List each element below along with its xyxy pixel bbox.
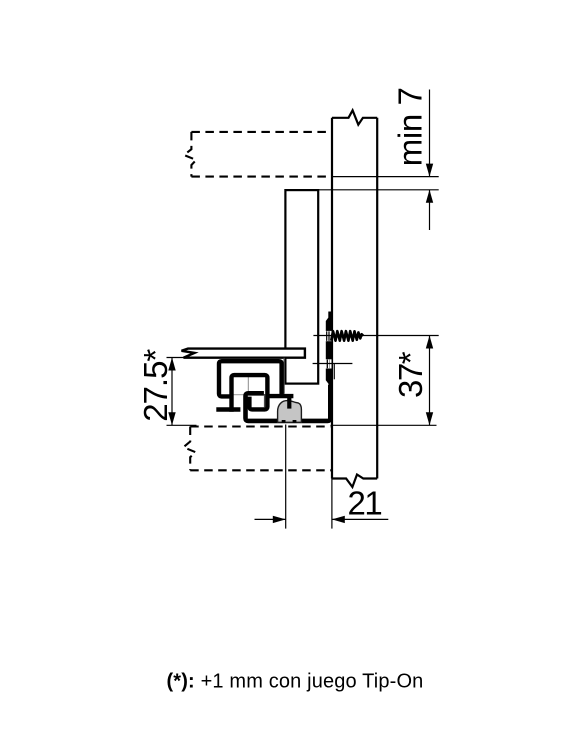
27.5 top extension line (167, 357, 187, 359)
min 7 extension line (bottom, at drawer back top) (318, 189, 439, 191)
svg-text:min 7: min 7 (391, 87, 428, 166)
dimension min 7 (429, 90, 431, 177)
mounting flange (black) (326, 312, 332, 388)
dimension 21 (255, 518, 286, 520)
37 bottom extension line (331, 424, 437, 426)
21 extension line (left) (285, 425, 287, 529)
min 7 extension line (top, at hidden panel bottom) (332, 176, 439, 178)
drawer bottom panel (with break at left end) (182, 349, 305, 358)
hidden top panel (dashed outline with break) (184, 132, 331, 177)
construction line (gray, inner) (247, 377, 249, 392)
construction line (gray, horizontal) (233, 394, 245, 396)
Tip-On stem (287, 396, 291, 408)
screw head lines (326, 331, 328, 341)
cabinet side panel (332, 110, 377, 487)
hidden hole line in panel (333, 364, 335, 380)
drawer rail profile (piece A) (216, 361, 330, 421)
construction line (gray, inner 2) (266, 394, 268, 407)
rail hook bar (216, 407, 240, 411)
catch feet (282, 420, 286, 423)
svg-text:21: 21 (348, 485, 382, 522)
hidden edge line (right of drawer rail) (283, 358, 285, 394)
27.5 bottom extension line (167, 424, 197, 426)
21 extension line (right, panel edge continuation) (331, 479, 333, 529)
inner rail profile (piece B) (232, 375, 268, 412)
svg-text:37*: 37* (392, 351, 429, 398)
screw (thread zigzag) (331, 331, 363, 341)
slot lines (326, 360, 328, 369)
drawer back panel (285, 190, 318, 384)
screw axis / 37 top extension line (313, 335, 438, 337)
cabinet rail profile (piece C) (246, 385, 331, 421)
hidden edge line (inner square right) (264, 394, 266, 407)
hidden lower drawer panel (dashed with break) (184, 427, 332, 471)
svg-text:27.5*: 27.5* (137, 349, 174, 422)
svg-text:(*): +1 mm con juego Tip-On: (*): +1 mm con juego Tip-On (167, 670, 424, 692)
screw hole band (white) (325, 331, 331, 341)
lower slot band (white) (325, 359, 331, 368)
lower hole axis line (313, 363, 353, 365)
Tip-On catch (gray dome) (278, 401, 302, 423)
dimension 27.5* (171, 358, 173, 426)
drawer bottom hidden edge (dashed) (190, 425, 330, 427)
Tip-On bracket bar (268, 394, 294, 398)
dimension 37* (429, 336, 431, 426)
